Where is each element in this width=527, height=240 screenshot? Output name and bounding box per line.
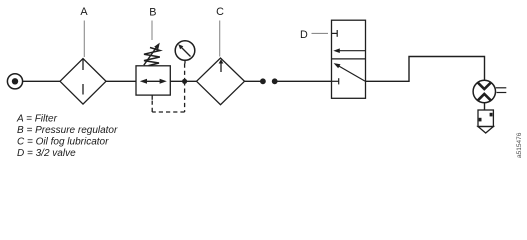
- pilot line dashed bottom horizontal: [152, 111, 184, 113]
- valve top cell blocked port: [332, 30, 338, 37]
- wire filter to lubricator (through regulator): [106, 80, 197, 82]
- air motor: [473, 80, 495, 102]
- valve bottom cell blocked port: [332, 78, 339, 84]
- svg-text:C: C: [216, 6, 224, 18]
- oil fog lubricator C: [197, 58, 245, 105]
- pilot line dashed gauge to junction: [184, 64, 186, 82]
- svg-text:D = 3/2 valve: D = 3/2 valve: [17, 148, 76, 159]
- motor shaft lines: [496, 88, 507, 93]
- leader C: [219, 21, 221, 57]
- svg-text:B = Pressure regulator: B = Pressure regulator: [17, 125, 118, 136]
- wire source to filter: [23, 80, 60, 82]
- leader B: [151, 21, 153, 41]
- legend: [16, 113, 118, 159]
- quick coupling left half: [260, 78, 266, 84]
- air supply source: [7, 74, 22, 89]
- pressure gauge: [175, 41, 195, 64]
- svg-text:B: B: [149, 7, 156, 19]
- svg-text:C = Oil fog lubricator: C = Oil fog lubricator: [17, 137, 109, 148]
- svg-text:A: A: [80, 6, 88, 18]
- wire valve to motor: [366, 57, 485, 82]
- regulator spring (adjustable): [144, 43, 160, 66]
- svg-text:D: D: [300, 29, 308, 41]
- pilot line dashed junction down: [184, 81, 186, 112]
- leader D: [312, 32, 329, 34]
- valve bottom cell diagonal arrow: [334, 63, 365, 81]
- pilot line dashed up to regulator: [151, 100, 153, 112]
- wire coupling to valve: [277, 80, 332, 82]
- pressure regulator B: [136, 66, 170, 100]
- 3/2 valve D body: [332, 20, 366, 98]
- valve top cell flow arrow: [333, 48, 365, 53]
- leader A: [83, 21, 85, 58]
- wire lubricator to coupling: [245, 80, 262, 82]
- quick coupling right half: [272, 78, 278, 84]
- filter A: [60, 59, 106, 105]
- junction dot: [182, 79, 187, 84]
- wire motor to tool: [484, 103, 486, 110]
- svg-text:A = Filter: A = Filter: [16, 113, 58, 124]
- tool bit: [478, 110, 493, 133]
- svg-text:a515476: a515476: [516, 132, 523, 158]
